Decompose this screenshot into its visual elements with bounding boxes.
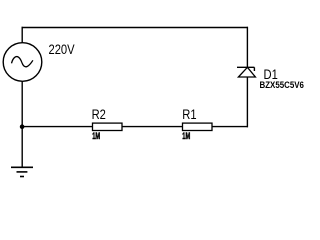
resistor R2 body [93,123,123,130]
zener diode D1 [237,67,255,77]
wire: top rail from source to diode [22,27,249,29]
resistor R1 body [183,123,213,130]
wire: diode bottom lead [246,77,248,127]
svg-text:1M: 1M [92,131,100,142]
wire: source top lead [21,27,23,44]
svg-text:BZX55C5V6: BZX55C5V6 [260,80,305,91]
svg-text:R1: R1 [182,107,196,122]
wire: bottom rail through R2 and R1 [22,126,248,128]
svg-text:R2: R2 [92,107,106,122]
AC source V1 [3,43,42,82]
svg-text:1M: 1M [182,131,190,142]
ground [11,167,33,176]
wire: source bottom lead down to ground [21,81,23,167]
wire: diode top lead [246,27,248,68]
svg-text:220V: 220V [49,42,76,57]
node junction dot [20,124,25,129]
